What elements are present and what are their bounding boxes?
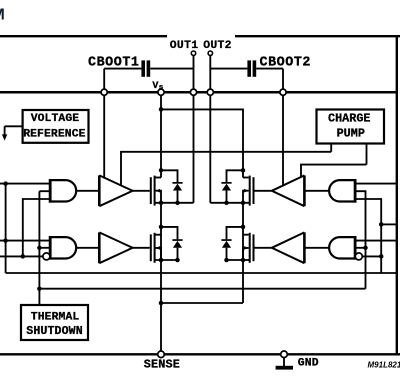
- svg-text:M: M: [0, 7, 5, 24]
- node thermal route: [37, 286, 42, 291]
- transistor M4 (low-side right): [243, 233, 255, 263]
- wire M3 source row: [154, 259, 177, 261]
- wire M2 drain to diode top: [227, 170, 244, 182]
- wire charge pump out1 stub: [330, 144, 332, 152]
- terminal GND: [281, 351, 288, 358]
- svg-text:PUMP: PUMP: [337, 127, 365, 141]
- transistor M3 (low-side left): [150, 233, 161, 263]
- wire to D4 cathode: [227, 227, 244, 239]
- wire CBOOT1 left: [104, 68, 141, 70]
- Vs supply rail: [0, 91, 397, 94]
- frame top line: [0, 35, 400, 37]
- svg-text:SHUTDOWN: SHUTDOWN: [26, 325, 82, 338]
- wire AND4 output: [304, 247, 329, 249]
- wire driver U5 to M1 gate: [133, 190, 150, 192]
- driver U6 (bottom left triangle): [99, 232, 132, 263]
- wire M1 drain to diode top: [161, 170, 178, 182]
- driver U8 (bottom right triangle): [272, 232, 305, 263]
- terminal OUT1: [191, 51, 195, 55]
- wire to D3 cathode: [161, 227, 178, 239]
- diode D1 body: [172, 182, 182, 203]
- wire left bridge column down: [160, 203, 162, 303]
- svg-text:GND: GND: [298, 358, 319, 370]
- wire AND4 in2 stub: [355, 247, 365, 249]
- node AND4 bubble net: [379, 254, 384, 259]
- node M2 source: [241, 201, 246, 206]
- node D4 anode: [224, 258, 229, 263]
- wire AND4 in1 to frame: [355, 240, 397, 242]
- transistor M1 (high-side left): [150, 176, 161, 206]
- wire bottom route 2: [39, 288, 365, 290]
- wire thermal vertical: [38, 191, 40, 304]
- wire Vs cross to right column: [161, 109, 243, 177]
- node M2 drain junction: [241, 168, 246, 173]
- wire Vs branch to bridge columns: [160, 95, 162, 178]
- wire AND1 output: [76, 190, 99, 192]
- wire AND3 in2 down: [355, 191, 365, 289]
- wire CBOOT1 drop to driver: [103, 69, 105, 179]
- terminal OUT2: [208, 51, 212, 55]
- node M1 source: [159, 201, 164, 206]
- capacitor CBOOT1: [141, 60, 145, 76]
- wire M2 source row to OUT2: [210, 202, 249, 204]
- wire input1 vertical: [5, 184, 7, 273]
- svg-text:OUT2: OUT2: [203, 40, 232, 52]
- wire input3 vertical: [23, 199, 50, 256]
- wire charge pump to right driver: [301, 165, 367, 177]
- svg-text:M91L821: M91L821: [368, 361, 400, 370]
- node thermal to AND2: [37, 246, 42, 251]
- rail crossing circle at OUT1 line: [190, 89, 196, 95]
- node sense junction: [159, 301, 164, 306]
- wire CBOOT1 right: [150, 68, 193, 70]
- svg-text:VOLTAGE: VOLTAGE: [31, 113, 80, 125]
- diode D3 body: [172, 239, 182, 260]
- wire bottom route 1: [6, 272, 397, 274]
- wire AND2 in2 stub: [39, 247, 50, 249]
- svg-text:THERMAL: THERMAL: [31, 311, 80, 323]
- transistor M2 (high-side right): [243, 176, 255, 206]
- diode D2 body: [221, 182, 231, 203]
- driver U7 (top right triangle): [272, 175, 305, 206]
- box thermal shutdown: [21, 305, 88, 340]
- bubble AND2 input: [43, 253, 50, 260]
- wire driver U8 to M4 gate: [254, 247, 272, 249]
- bubble AND4 input: [355, 253, 362, 260]
- wire M1 source row to OUT1: [154, 202, 193, 204]
- node M4 source: [241, 258, 246, 263]
- node input1: [3, 181, 8, 186]
- and gate U4 (bottom right, mirrored): [329, 236, 355, 260]
- frame right edge: [396, 36, 398, 354]
- node right bridge mid: [241, 225, 246, 230]
- wire AND3 in3 down: [355, 199, 381, 273]
- rail crossing circle at OUT2 line: [207, 89, 213, 95]
- box voltage reference: [23, 110, 89, 143]
- node Vs branch: [159, 107, 164, 112]
- wire charge pump rail to left driver: [121, 152, 331, 186]
- and gate U3 (top right, mirrored): [329, 179, 355, 203]
- terminal Vs: [158, 89, 164, 95]
- wire sense drop: [160, 303, 162, 351]
- node D3 anode: [175, 258, 180, 263]
- wire CBOOT2 drop to driver: [282, 69, 284, 187]
- ground symbol: [283, 358, 285, 366]
- node D2 anode: [224, 201, 229, 206]
- wire CBOOT2 right: [256, 68, 283, 70]
- svg-text:SENSE: SENSE: [144, 358, 180, 372]
- svg-text:CHARGE: CHARGE: [328, 112, 370, 126]
- wire and1 in2: [39, 190, 50, 192]
- and gate U2 (bottom left): [50, 236, 76, 260]
- and gate U1 (top left): [50, 179, 76, 203]
- node input2 cross: [3, 238, 8, 243]
- node M1 drain junction: [159, 168, 164, 173]
- wire AND3 output: [304, 190, 329, 192]
- node left bridge mid: [159, 225, 164, 230]
- svg-text:REFERENCE: REFERENCE: [23, 129, 85, 141]
- wire OUT1 vertical: [193, 56, 195, 203]
- rail crossing circle at CBOOT2 line: [280, 89, 286, 95]
- wire AND3 in1 to frame: [355, 183, 397, 185]
- wire OUT2 vertical: [209, 56, 211, 203]
- box charge pump: [317, 110, 385, 144]
- svg-text:OUT1: OUT1: [170, 40, 199, 52]
- wire charge pump out2 stub: [366, 144, 368, 165]
- label OUT1 background gap: [167, 34, 235, 50]
- wire AND4 bubble link: [362, 255, 381, 257]
- driver U5 (top left triangle): [99, 175, 132, 206]
- wire input pin 1: [0, 183, 50, 185]
- wire right pin link: [381, 223, 397, 225]
- wire M4 source row: [227, 259, 250, 261]
- wire sense bottom link: [161, 302, 243, 304]
- wire driver U7 to M2 gate: [254, 190, 272, 192]
- wire input pin 3: [0, 255, 43, 257]
- node right pin link: [379, 222, 384, 227]
- rail crossing circle at CBOOT1 line: [101, 89, 107, 95]
- wire input pin 2: [0, 240, 50, 242]
- wire vref output: [5, 125, 23, 127]
- wire driver U6 to M3 gate: [133, 247, 150, 249]
- node M3 source: [159, 258, 164, 263]
- capacitor CBOOT2: [247, 60, 251, 76]
- wire right bridge column down: [242, 203, 244, 303]
- node input3: [21, 254, 26, 259]
- wire CBOOT2 left: [210, 68, 247, 70]
- node D1 anode: [175, 201, 180, 206]
- arrow vref down: [4, 126, 6, 135]
- node AND4 in2: [363, 246, 368, 251]
- wire AND2 output: [76, 247, 99, 249]
- frame bottom line: [0, 353, 400, 355]
- diode D4 body: [221, 239, 231, 260]
- terminal SENSE: [158, 351, 165, 358]
